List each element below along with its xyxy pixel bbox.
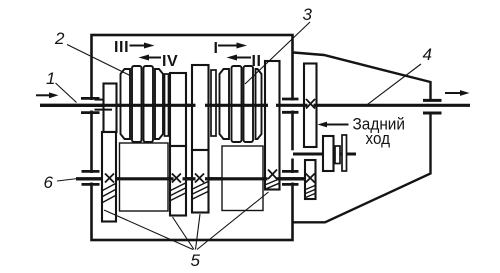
countershaft visible through W1 <box>116 177 170 180</box>
countershaft wide gear W2 <box>222 146 263 211</box>
wall gap: main shaft right bearing <box>288 101 297 111</box>
arrow reverse <box>326 124 349 126</box>
x mark G1 bottom <box>105 174 114 183</box>
main shaft stubs in gear Q <box>192 104 196 107</box>
arrow input <box>36 94 52 96</box>
countershaft <box>76 177 305 180</box>
hatch G1 bottom <box>103 184 116 203</box>
centerline dashes at input gear <box>95 99 104 101</box>
main shaft <box>103 104 470 107</box>
leader 4 <box>367 64 421 105</box>
bearing caps: input shaft left wall <box>81 97 100 100</box>
arrow output <box>445 92 461 94</box>
countershaft stubs in P bottom <box>170 177 174 180</box>
wall gap: input bearing <box>87 100 96 111</box>
gear G1 top: input constant-mesh gear <box>104 84 117 133</box>
synchronizer cluster 2: strip 3 <box>244 66 254 142</box>
svg-text:IV: IV <box>162 53 178 70</box>
spacer B1 <box>165 74 169 136</box>
synchronizer 2 cluster: strip 2 <box>132 66 142 142</box>
leader 5d <box>197 192 269 250</box>
bearing caps: countershaft right wall <box>282 170 299 173</box>
svg-text:4: 4 <box>423 45 432 64</box>
leader 3 <box>245 22 310 84</box>
synchronizer 2 cluster: strip 3 <box>144 66 154 142</box>
leader 5c <box>196 214 201 250</box>
reverse idler small gear <box>342 135 347 171</box>
gear G1 bottom: countershaft driven gear <box>102 132 116 222</box>
leader 6 <box>57 179 78 182</box>
svg-text:6: 6 <box>44 173 54 192</box>
bearing caps: output shaft at extension housing <box>423 99 442 102</box>
arrow I <box>218 45 240 47</box>
reverse idler hub <box>335 146 340 164</box>
extension housing right lower edge <box>294 114 431 223</box>
leader 2 <box>67 45 130 76</box>
countershaft wide gear W1 <box>120 143 169 211</box>
main shaft stubs in gear T <box>265 104 269 107</box>
hatch Q bottom <box>193 182 209 200</box>
leader 5b <box>173 217 195 250</box>
x mark reverse pinion <box>306 174 315 183</box>
wall gap: countershaft left bearing <box>87 173 96 183</box>
gear Q bottom (countershaft, 5) <box>192 150 209 213</box>
countershaft to reverse pinion <box>280 177 307 180</box>
hatch reverse pinion <box>306 186 316 198</box>
input shaft <box>40 104 103 107</box>
svg-text:ход: ход <box>366 129 391 148</box>
svg-text:2: 2 <box>54 29 65 48</box>
spacer B2 <box>211 70 216 136</box>
reverse idler big gear <box>323 136 334 171</box>
leader 5a <box>104 210 193 250</box>
svg-text:5: 5 <box>191 251 201 270</box>
wall gap: countershaft right bearing <box>288 173 297 183</box>
arrow IV <box>146 57 162 59</box>
gear R: reverse sliding gear on main shaft <box>304 64 317 148</box>
arrow II <box>234 57 252 59</box>
countershaft bridge P-Q <box>186 177 192 180</box>
countershaft stubs in T <box>265 177 268 180</box>
countershaft stubs in Q bottom <box>192 177 196 180</box>
countershaft visible through W2 <box>209 177 265 180</box>
bearing caps: main shaft right wall <box>282 98 299 101</box>
arrow III <box>130 45 148 47</box>
synchronizer cluster 2: strip 1 <box>220 69 230 139</box>
svg-text:3: 3 <box>303 5 313 24</box>
extension housing polygon <box>294 53 431 101</box>
gear P bottom (countershaft, 5) <box>170 146 186 216</box>
synchronizer 2 cluster: strip 4 <box>155 69 163 139</box>
leader 1 <box>56 83 77 103</box>
main shaft visible through gears (left group) <box>101 104 190 107</box>
reverse pinion on countershaft <box>305 160 316 199</box>
x mark P bottom <box>172 174 181 183</box>
svg-text:II: II <box>252 53 262 70</box>
main shaft stubs in gear R <box>305 104 308 107</box>
reverse idler shaft <box>293 153 356 156</box>
x mark gear T <box>268 170 277 180</box>
gearbox housing <box>92 35 293 240</box>
hatch P bottom <box>171 183 186 201</box>
svg-text:I: I <box>214 40 219 57</box>
synchronizer cluster 2: strip 4 <box>256 69 262 139</box>
main shaft visible through gears (right group) <box>210 104 264 107</box>
x mark reverse gear R <box>306 99 315 109</box>
svg-text:1: 1 <box>46 69 55 88</box>
synchronizer cluster 2: strip 2 <box>232 66 242 142</box>
gear T (II speed, tall) <box>265 61 280 190</box>
bearing 6: countershaft left wall <box>82 170 100 173</box>
synchronizer 2 cluster: strip 1 <box>121 69 131 139</box>
gear Q top (main shaft) <box>192 65 209 150</box>
gear P top (main shaft) <box>170 73 186 146</box>
svg-text:III: III <box>114 39 129 56</box>
hatch gear T <box>266 179 279 189</box>
x mark Q bottom <box>195 174 204 183</box>
wall gap: reverse idler bearing <box>289 150 297 158</box>
